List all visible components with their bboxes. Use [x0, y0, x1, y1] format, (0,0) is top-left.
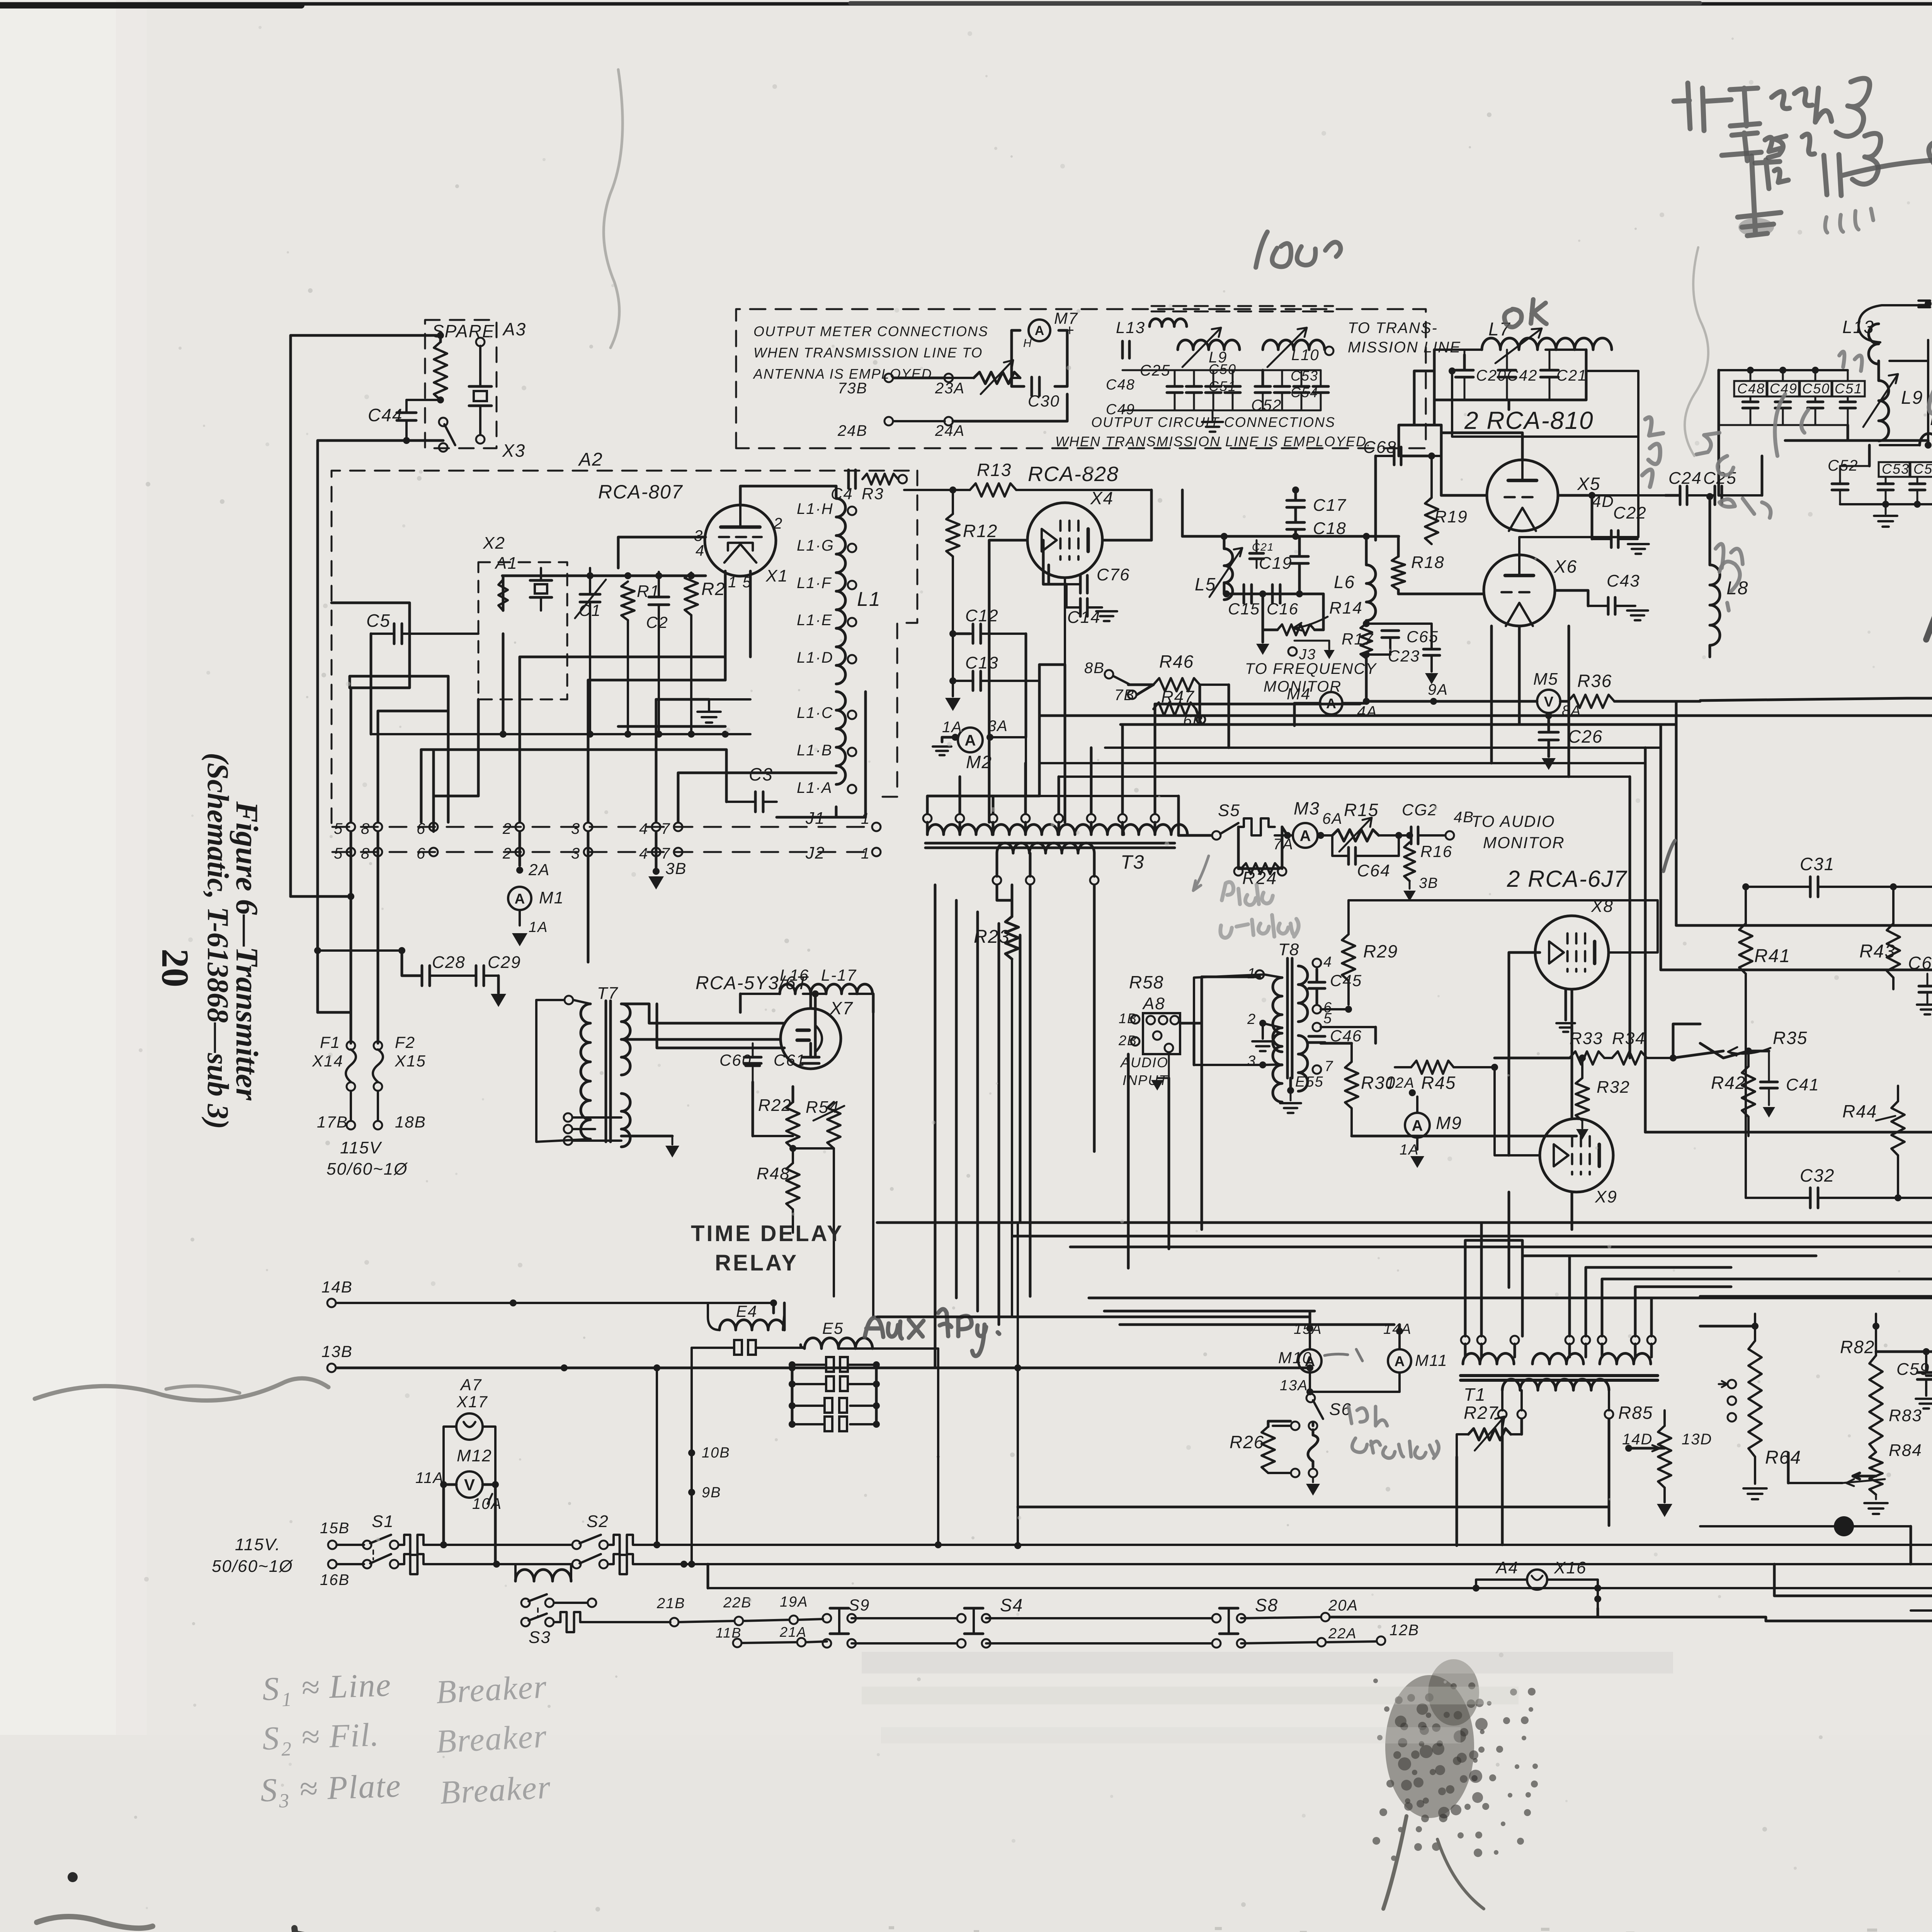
svg-text:C18: C18: [1313, 519, 1347, 538]
ground near L1 top: [697, 699, 750, 723]
svg-text:R33: R33: [1570, 1029, 1603, 1048]
node 2A: [516, 861, 550, 879]
pin 4: [696, 542, 705, 559]
svg-text:7A: 7A: [1273, 836, 1294, 853]
svg-text:A1: A1: [494, 554, 518, 573]
svg-text:S₂ ≈ Fil.: S₂ ≈ Fil.: [262, 1716, 380, 1757]
label C50 C51 C52: [1209, 361, 1282, 414]
transformer T8 core: [1278, 940, 1299, 1078]
J1 right terminals 1: [861, 810, 881, 831]
svg-text:X3: X3: [502, 440, 526, 461]
caps under C48 boxes: [1743, 396, 1855, 425]
svg-text:A8: A8: [1142, 994, 1165, 1013]
svg-text:J1: J1: [805, 809, 825, 828]
svg-text:24A: 24A: [935, 422, 965, 439]
J1 terminals: [347, 823, 682, 831]
switch S1: [337, 1512, 398, 1568]
svg-text:C42: C42: [1507, 367, 1537, 384]
transformer T3 core: [925, 843, 1175, 848]
wire R64 top: [1700, 1325, 1755, 1328]
wire C44 branch: [318, 396, 444, 1012]
svg-text:L13: L13: [1116, 318, 1145, 337]
switch in A3: [439, 418, 455, 452]
label X4: [1090, 488, 1114, 508]
wire X9 cathode bus: [1352, 1067, 1577, 1155]
wire R35 pot lines: [1673, 1043, 1748, 1058]
svg-text:A: A: [1300, 827, 1311, 844]
wire lamp meter frame: [440, 1427, 499, 1488]
svg-text:R82: R82: [1840, 1337, 1875, 1357]
svg-text:C24: C24: [1668, 469, 1702, 488]
wire rect bottom: [621, 1082, 834, 1158]
svg-text:3B: 3B: [1419, 875, 1438, 891]
svg-text:R45: R45: [1421, 1073, 1456, 1093]
smudge left low blob: [37, 1917, 153, 1928]
pin 2: [773, 515, 783, 532]
cap boxes C53 C54: [1879, 461, 1932, 477]
wire S1 to S2: [444, 1485, 572, 1564]
node 7A: [1273, 832, 1294, 853]
breaker S2a: [608, 1535, 687, 1574]
wire X5 plate: [1441, 433, 1522, 495]
push switch S9: [823, 1596, 870, 1648]
svg-text:L1·A: L1·A: [797, 779, 833, 796]
terminals 13D col: [1719, 1380, 1736, 1422]
svg-text:T8: T8: [1278, 940, 1299, 959]
svg-text:23A: 23A: [935, 380, 965, 397]
svg-text:MISSION LINE: MISSION LINE: [1348, 339, 1461, 356]
svg-text:X5: X5: [1577, 474, 1600, 494]
transformer T8 left lower: [1247, 1011, 1282, 1102]
svg-text:X14: X14: [312, 1052, 344, 1070]
svg-text:E5: E5: [822, 1319, 844, 1337]
label X2: [483, 534, 505, 553]
svg-text:C3: C3: [749, 764, 773, 784]
svg-text:115V: 115V: [340, 1138, 382, 1157]
meter M4: [1287, 685, 1378, 726]
wire T3 drops: [1030, 885, 1094, 1296]
text output circuit line1: [1091, 414, 1335, 430]
fuse F2 X15: [373, 1033, 426, 1091]
svg-text:A: A: [965, 732, 976, 749]
resistor R13: [970, 460, 1016, 497]
capacitor C3: [726, 764, 777, 812]
smudge bottom dark streak: [294, 1928, 412, 1932]
svg-text:18B: 18B: [395, 1113, 426, 1131]
top edge scan line: [0, 3, 1932, 5]
wire rect out bus: [872, 994, 875, 1012]
wire S3 to terminals: [656, 1594, 823, 1626]
capacitor C60: [719, 1043, 761, 1082]
svg-text:R48: R48: [757, 1164, 790, 1183]
svg-text:16B: 16B: [320, 1571, 350, 1588]
svg-text:RCA-828: RCA-828: [1028, 463, 1119, 486]
resistor R19: [1401, 452, 1468, 544]
resistor R24: [1234, 818, 1286, 888]
label RCA-828: [1028, 463, 1119, 486]
wire R17 to 4A: [1365, 655, 1368, 701]
svg-text:73B: 73B: [838, 380, 867, 397]
wire long left pair: [291, 893, 354, 900]
wire X4 grid mesh: [989, 540, 1065, 796]
capacitor C18: [1287, 507, 1347, 538]
switch S3 contacts: [521, 1594, 596, 1647]
svg-text:1A: 1A: [1400, 1142, 1419, 1158]
wire T8-5 to X9: [1321, 1027, 1376, 1043]
wire L7 to plate bus: [1414, 371, 1509, 425]
svg-text:13A: 13A: [1280, 1378, 1308, 1394]
label T3: [1121, 851, 1145, 873]
tap L1-G: [797, 537, 856, 554]
transformer T3 secondary: [997, 843, 1094, 853]
text output meter line3: [753, 366, 937, 382]
svg-text:8B: 8B: [1084, 660, 1105, 677]
svg-text:2: 2: [1247, 1011, 1256, 1027]
text to frequency monitor: [1245, 660, 1377, 695]
svg-text:R64: R64: [1765, 1447, 1801, 1468]
T1 secondary pins: [1498, 1390, 1613, 1418]
label X3: [502, 440, 526, 461]
wire left feed to A3: [291, 332, 444, 896]
svg-text:13D: 13D: [1682, 1431, 1712, 1448]
wire C5 column: [371, 634, 503, 734]
wire audio to T8: [1151, 975, 1264, 1090]
T7 lower terms: [564, 1113, 621, 1145]
resistor R85: [1618, 1403, 1672, 1517]
wire X12 X13 plates: [1926, 1376, 1932, 1421]
resistor R84 part: [1853, 1441, 1922, 1514]
resistor R27 pot: [1457, 1403, 1522, 1457]
svg-text:F1: F1: [320, 1033, 340, 1051]
label RCA-5Y3/6T: [696, 973, 809, 993]
svg-text:C17: C17: [1313, 496, 1347, 515]
relay E5 contact row 2: [789, 1376, 880, 1391]
svg-text:4A: 4A: [1357, 703, 1378, 720]
breaker S6 body: [1308, 1422, 1318, 1477]
capacitor C41: [1745, 1048, 1820, 1117]
wire cap bank top right: [1719, 367, 1848, 381]
resistor R29: [1342, 934, 1398, 1005]
wire bottom nest: [1700, 1510, 1932, 1596]
lamp X17: [456, 1413, 483, 1440]
wire X4 bottom drops: [989, 665, 1065, 822]
svg-text:8: 8: [361, 820, 370, 837]
svg-text:C16: C16: [1267, 600, 1299, 618]
capacitor C21v: [1250, 540, 1274, 568]
svg-text:S1: S1: [372, 1512, 394, 1531]
wire S9 to S4: [852, 1618, 957, 1643]
capbank C48 C49 left: [1106, 370, 1240, 418]
terminal A3 bottom: [476, 435, 485, 444]
faint ghost rows: [862, 1652, 1673, 1743]
wire top feeds T1 area: [1294, 1311, 1400, 1337]
svg-text:L1·C: L1·C: [797, 704, 833, 721]
wire bus 2060: [927, 795, 1179, 797]
pencil tick near 6J7: [1663, 840, 1675, 871]
title Schematic T-613868 sub 3: [201, 753, 235, 1129]
capacitor C21b: [1541, 350, 1587, 400]
wire feeders upper mesh: [351, 634, 836, 822]
svg-text:C43: C43: [1607, 571, 1640, 590]
terminal A3 top: [476, 338, 485, 346]
capacitor CG2: [1402, 801, 1454, 844]
T3 primary pins: [927, 822, 1155, 835]
wire T3 feeds: [927, 796, 1039, 814]
connector J1 dashed line: [332, 809, 875, 828]
wire M7 loop: [1012, 330, 1067, 386]
title Figure 6 Transmitter: [230, 801, 265, 1101]
label R35: [1728, 1028, 1808, 1056]
tank box wires: [1434, 350, 1586, 400]
J1 pin numbers: [334, 820, 670, 837]
svg-text:M11: M11: [1415, 1351, 1448, 1369]
handwritten Aux RLy: [865, 1309, 999, 1356]
svg-text:C54: C54: [1913, 461, 1932, 477]
svg-text:R17: R17: [1342, 630, 1374, 648]
svg-text:2 RCA-6J7: 2 RCA-6J7: [1507, 866, 1628, 892]
svg-text:C68: C68: [1363, 438, 1397, 457]
wire X1 pins down: [725, 571, 750, 680]
wire S8 lower out: [1241, 1622, 1419, 1646]
svg-text:C13: C13: [965, 653, 999, 672]
svg-text:5: 5: [334, 820, 343, 837]
label A7 X17: [456, 1376, 488, 1411]
ground near X8 foot: [1556, 989, 1575, 1032]
svg-text:3: 3: [571, 845, 580, 862]
capacitor C24 C25b: [1665, 469, 1762, 505]
svg-text:R84: R84: [1889, 1441, 1922, 1460]
node 9A: [1366, 681, 1537, 705]
svg-text:C29: C29: [488, 953, 521, 972]
svg-text:4: 4: [639, 820, 648, 837]
resistor R64: [1743, 1314, 1801, 1499]
transformer T1 core: [1461, 1376, 1658, 1380]
label R83: [1889, 1406, 1922, 1425]
text to transmission line: [1348, 320, 1461, 356]
svg-text:L16: L16: [780, 966, 809, 984]
label E55: [1280, 1074, 1324, 1113]
caps under C53 C54: [1869, 445, 1925, 504]
meter M1: [508, 887, 564, 925]
label X1: [765, 566, 788, 585]
svg-text:R54: R54: [806, 1098, 839, 1117]
svg-text:R23: R23: [974, 927, 1010, 947]
resistor R48: [757, 1148, 799, 1233]
label 115V bottom: [212, 1535, 293, 1576]
svg-text:L1: L1: [857, 588, 881, 611]
terminal 73B: [838, 374, 893, 397]
label SPARE: [432, 321, 495, 341]
svg-text:1: 1: [861, 845, 870, 862]
capacitor C46: [1309, 1027, 1362, 1045]
pencil confidential text: [1929, 363, 1932, 413]
crystal X3 in A3: [469, 346, 492, 435]
svg-text:20A: 20A: [1328, 1597, 1358, 1614]
svg-text:50/60~1Ø: 50/60~1Ø: [212, 1557, 293, 1576]
capacitor C1 variable: [575, 568, 606, 634]
text RELAY stencil: [715, 1250, 798, 1276]
smudge crack right of box: [1685, 247, 1708, 456]
svg-text:C21: C21: [1556, 367, 1587, 384]
wire C1 foot: [590, 615, 691, 734]
meter M7 top: [1009, 309, 1078, 350]
ground capbank: [1202, 410, 1223, 432]
label A3: [502, 319, 526, 339]
tube X4: [1027, 503, 1102, 578]
label X9: [1595, 1187, 1617, 1206]
svg-text:1A: 1A: [529, 919, 548, 935]
terminal 15B: [320, 1520, 350, 1549]
wire R34 junction: [1670, 1024, 1700, 1061]
capacitor C15: [1228, 585, 1260, 618]
resistor in A3: [434, 342, 447, 400]
svg-text:RCA-807: RCA-807: [598, 481, 683, 503]
svg-text:C1: C1: [579, 601, 601, 619]
resistor R17: [1342, 624, 1374, 658]
svg-text:14D: 14D: [1622, 1431, 1653, 1448]
svg-text:TO AUDIO: TO AUDIO: [1471, 812, 1555, 830]
capacitor C14: [1066, 584, 1117, 627]
wire bottom corner frame: [1774, 1611, 1932, 1621]
wire long horizontals mid: [877, 1223, 1932, 1325]
tap L1-H: [797, 500, 856, 517]
inductor L5 variable: [1195, 536, 1242, 600]
meter M12: [456, 1471, 483, 1498]
inductor L1: [836, 498, 845, 784]
svg-text:3: 3: [571, 820, 580, 837]
svg-text:C48: C48: [1737, 381, 1765, 396]
svg-text:20: 20: [154, 949, 197, 987]
inductor L10 right: [1880, 410, 1932, 455]
wire L9 column: [1927, 340, 1929, 440]
wire L9 down to L10 row: [1925, 440, 1932, 449]
capacitor C68: [1363, 438, 1441, 540]
svg-text:C65: C65: [1406, 628, 1439, 646]
relay E5 contact row 1: [789, 1357, 880, 1372]
transformer T7 core: [606, 1001, 611, 1142]
J2 pin numbers: [334, 845, 670, 862]
svg-text:3: 3: [1247, 1053, 1256, 1069]
svg-text:X15: X15: [395, 1052, 426, 1070]
svg-text:C44: C44: [368, 405, 403, 425]
smudge bottom left wavy: [35, 1378, 328, 1400]
svg-text:12B: 12B: [1389, 1622, 1419, 1639]
wire bottom long 3900: [1018, 1506, 1609, 1509]
wire frame 1852: [1039, 716, 1932, 1321]
wire bus 1975: [1039, 748, 1645, 763]
capacitor C43: [1555, 571, 1648, 620]
svg-text:X17: X17: [456, 1393, 488, 1411]
text output meter line1: [753, 323, 988, 339]
resistor R41: [1739, 887, 1791, 1198]
wire M10 M11 join: [1280, 1372, 1400, 1395]
svg-text:Breaker: Breaker: [439, 1768, 552, 1811]
svg-text:50/60~1Ø: 50/60~1Ø: [327, 1160, 408, 1179]
svg-text:J2: J2: [805, 844, 825, 862]
terminals 11B 21A: [716, 1624, 827, 1647]
svg-text:1: 1: [861, 810, 870, 827]
resistor R12: [946, 490, 998, 692]
wire X1 grid left: [618, 537, 706, 568]
svg-text:R34: R34: [1612, 1029, 1646, 1048]
wire mid horiz right: [1522, 1256, 1932, 1298]
pencil vert ground doodle: [1738, 156, 1781, 236]
svg-text:WHEN TRANSMISSION LINE TO: WHEN TRANSMISSION LINE TO: [753, 345, 983, 361]
svg-text:R85: R85: [1618, 1403, 1653, 1423]
lamp A4 X16: [1476, 1558, 1601, 1608]
J2 terminals: [347, 848, 682, 856]
wire T1 bottom drops: [1457, 1419, 1609, 1546]
capacitor C17: [1287, 486, 1347, 515]
handwritten S1 Line Breaker: [262, 1666, 548, 1711]
transformer T1 primary: [1463, 1354, 1651, 1364]
capacitor C31: [1742, 854, 1897, 897]
svg-text:R83: R83: [1889, 1406, 1922, 1425]
svg-text:R13: R13: [977, 460, 1012, 480]
svg-text:M1: M1: [539, 888, 564, 907]
T3 secondary pins: [993, 853, 1099, 884]
wire T3 risers: [960, 704, 1360, 814]
svg-text:S2: S2: [587, 1512, 609, 1531]
relay E5: [801, 1319, 938, 1349]
pencil 1000 center: [1256, 232, 1341, 267]
svg-text:C76: C76: [1097, 565, 1130, 584]
svg-text:12A: 12A: [1386, 1075, 1415, 1091]
coil S3 sensing: [515, 1564, 571, 1581]
svg-text:RELAY: RELAY: [715, 1250, 798, 1276]
inductor L6: [1334, 536, 1376, 624]
cap row C52: [1828, 457, 1869, 504]
svg-text:C53: C53: [1882, 461, 1910, 477]
svg-text:C4: C4: [831, 485, 853, 503]
resistor R14 pot: [1263, 594, 1363, 635]
relay E5 contact row 3: [789, 1398, 880, 1413]
inductor L17: [812, 966, 873, 997]
node 12A: [1386, 1075, 1416, 1096]
svg-text:4B: 4B: [1454, 809, 1474, 826]
svg-text:L1·F: L1·F: [797, 575, 832, 592]
capacitor C20: [1456, 350, 1507, 400]
transformer T8 left third: [1247, 1053, 1282, 1069]
capacitor C30 top: [1028, 377, 1060, 410]
svg-text:C30: C30: [1028, 392, 1060, 410]
capbank C53 C54 right: [1255, 368, 1328, 410]
dashed feeder pair to J4: [1918, 300, 1932, 307]
svg-text:R22: R22: [758, 1096, 792, 1115]
terminal 23A: [935, 374, 965, 397]
inductor L9 box: [1178, 328, 1240, 367]
svg-text:6: 6: [417, 845, 426, 862]
capacitor C44: [397, 400, 416, 440]
node 1A M9: [1400, 1142, 1424, 1168]
resistor R42: [1711, 1051, 1755, 1136]
tube X5: [1487, 460, 1600, 531]
ground under R12 col: [945, 681, 961, 711]
svg-text:L1·E: L1·E: [797, 612, 833, 629]
switch S5: [1212, 801, 1240, 840]
svg-text:X9: X9: [1595, 1187, 1617, 1206]
resistor R2: [685, 573, 726, 615]
svg-text:11B: 11B: [716, 1625, 742, 1641]
capacitor C23: [1388, 624, 1440, 684]
pencil cap2 long lead: [1824, 155, 1932, 196]
svg-text:V: V: [464, 1476, 475, 1494]
page number 20: [154, 949, 197, 987]
svg-text:X6: X6: [1554, 556, 1577, 577]
capacitor C45: [1309, 969, 1362, 1005]
wire main 115 bus: [657, 1545, 1932, 1564]
svg-text:MONITOR: MONITOR: [1483, 833, 1565, 852]
